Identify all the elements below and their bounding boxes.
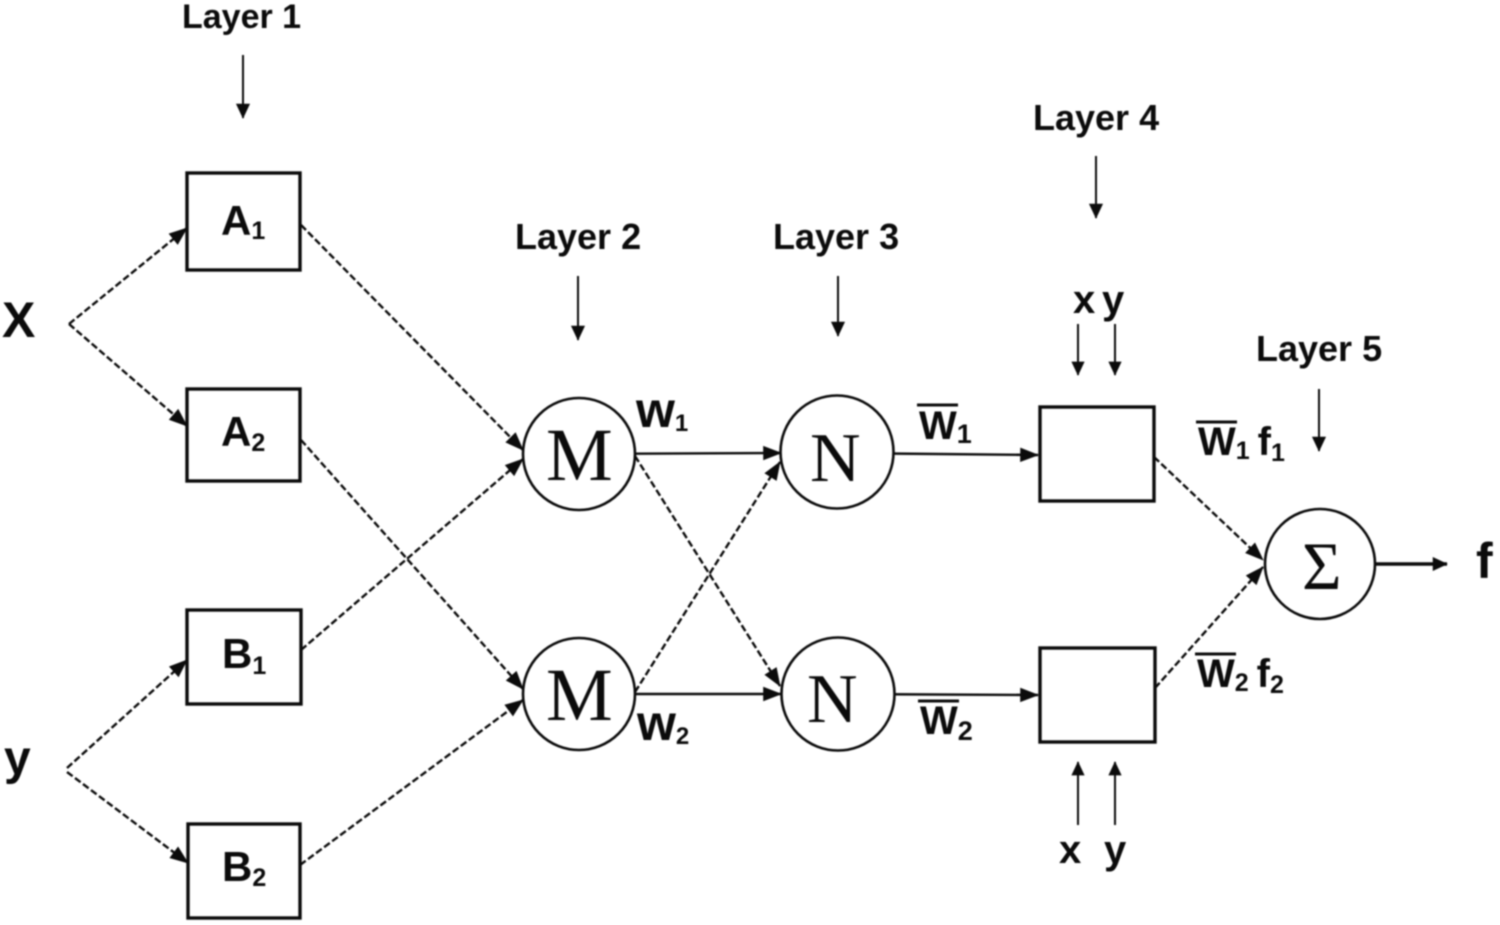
svg-text:Layer 5: Layer 5 xyxy=(1256,328,1382,369)
svg-text:Σ: Σ xyxy=(1302,528,1342,604)
svg-text:Layer 3: Layer 3 xyxy=(773,216,899,257)
svg-text:f: f xyxy=(1476,533,1493,589)
svg-text:X: X xyxy=(2,292,35,348)
svg-text:x: x xyxy=(1059,828,1081,872)
svg-text:W1f1: W1f1 xyxy=(1198,420,1285,467)
svg-text:M: M xyxy=(546,654,613,737)
svg-text:y: y xyxy=(4,732,31,785)
svg-text:M: M xyxy=(546,414,613,497)
svg-text:W2f2: W2f2 xyxy=(1197,652,1284,699)
svg-text:W2: W2 xyxy=(920,699,973,746)
svg-text:W1: W1 xyxy=(919,404,972,449)
svg-text:x: x xyxy=(1073,278,1095,322)
svg-text:w2: w2 xyxy=(636,695,689,751)
svg-text:N: N xyxy=(807,661,858,738)
svg-text:y: y xyxy=(1104,828,1127,872)
svg-text:Layer 2: Layer 2 xyxy=(515,216,641,257)
svg-text:Layer 1: Layer 1 xyxy=(182,0,301,36)
svg-text:Layer 4: Layer 4 xyxy=(1033,97,1159,138)
svg-text:N: N xyxy=(810,420,861,497)
svg-text:y: y xyxy=(1102,278,1125,322)
svg-text:w1: w1 xyxy=(635,382,688,438)
